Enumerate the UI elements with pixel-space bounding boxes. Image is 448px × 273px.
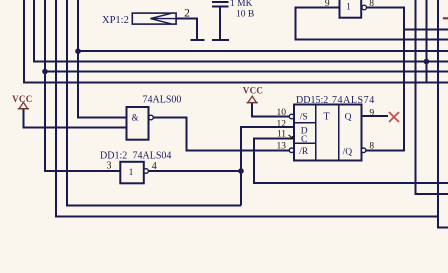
junction node A bbox=[75, 48, 81, 54]
svg-text:13: 13 bbox=[277, 141, 287, 151]
bubble top inverter output bbox=[362, 5, 367, 10]
no-connect X pin 9 bbox=[389, 112, 399, 122]
wire bus vertical V2 bbox=[34, 0, 448, 62]
flip-flop DD15:2 box bbox=[294, 104, 361, 160]
svg-text:VCC: VCC bbox=[12, 94, 32, 104]
svg-text:&: & bbox=[131, 113, 138, 123]
wire D pin 12 net bbox=[241, 127, 294, 206]
power VCC left bbox=[18, 102, 29, 108]
svg-text:2: 2 bbox=[184, 8, 190, 20]
svg-text:74ALS00: 74ALS00 bbox=[143, 95, 182, 106]
wire bus vertical V1 left bbox=[24, 0, 448, 83]
wire big loop V4 bottom bbox=[56, 0, 438, 217]
wire NAND output to /R pin 13 bbox=[153, 118, 289, 151]
bubble /Q pin 8 bbox=[361, 148, 366, 153]
wire branch y29 right bbox=[404, 28, 448, 30]
inverter DD1:2 box bbox=[120, 162, 144, 184]
wire bus vertical V3 to DD1:2 input bbox=[45, 0, 120, 171]
svg-text:/Q: /Q bbox=[343, 148, 353, 158]
wire V6 to NAND input A bbox=[78, 0, 127, 118]
ground capacitor bbox=[212, 39, 229, 41]
svg-text:8: 8 bbox=[369, 141, 374, 151]
wire VCC stem to /S pin 10 bbox=[252, 103, 289, 117]
wire C pin 11 feedback bbox=[254, 139, 448, 184]
junction node D bbox=[238, 168, 244, 174]
wire XP1:2 pin 2 to ground bbox=[176, 19, 197, 39]
wire V5 to bottom node bbox=[67, 0, 241, 206]
wire right vertical short bbox=[425, 0, 427, 83]
svg-text:1: 1 bbox=[346, 3, 351, 13]
junction node B bbox=[42, 69, 48, 75]
svg-text:T: T bbox=[324, 111, 330, 122]
svg-text:12: 12 bbox=[277, 120, 287, 130]
svg-text:DD1:2: DD1:2 bbox=[100, 151, 127, 162]
svg-text:Q: Q bbox=[345, 113, 352, 123]
bubble /R pin 13 bbox=[289, 148, 294, 153]
bubble DD1:2 output bbox=[144, 169, 149, 174]
svg-text:74ALS04: 74ALS04 bbox=[133, 151, 172, 162]
junction node C bbox=[424, 59, 430, 65]
svg-text:11: 11 bbox=[277, 130, 286, 140]
svg-text:4: 4 bbox=[152, 161, 157, 172]
wire top gate input 9 feedback bbox=[296, 8, 448, 40]
wire right vertical to edge bbox=[416, 0, 448, 194]
wire node branch y1 bbox=[78, 50, 448, 52]
connector XP1:2 bbox=[132, 13, 176, 24]
svg-text:9: 9 bbox=[369, 109, 374, 119]
gate top inverter U? bbox=[340, 0, 362, 18]
svg-text:10 B: 10 B bbox=[236, 10, 254, 20]
wire capacitor lead bbox=[219, 7, 221, 39]
svg-text:1 MK: 1 MK bbox=[230, 0, 253, 9]
wire right outer vertical to edge exit bbox=[438, 0, 448, 228]
svg-text:1: 1 bbox=[129, 168, 134, 178]
svg-text:10: 10 bbox=[277, 108, 287, 118]
ground XP bbox=[190, 39, 204, 41]
power VCC middle bbox=[247, 96, 258, 102]
wire DD1:2 output to node bbox=[148, 170, 241, 172]
wire node branch y3 bbox=[45, 71, 448, 73]
svg-text:/R: /R bbox=[299, 147, 309, 157]
svg-text:9: 9 bbox=[325, 0, 330, 9]
bubble /S pin 10 bbox=[289, 114, 294, 119]
svg-text:XP1:2: XP1:2 bbox=[102, 15, 129, 26]
svg-text:C: C bbox=[301, 135, 307, 145]
red dash right edge bbox=[443, 17, 448, 19]
capacitor C1 plates bbox=[212, 2, 228, 7]
svg-text:/S: /S bbox=[300, 113, 308, 123]
wire /Q pin 8 to top gate output bbox=[366, 8, 404, 151]
svg-text:3: 3 bbox=[107, 161, 112, 172]
dynamic input arrow C bbox=[289, 135, 293, 139]
svg-text:VCC: VCC bbox=[243, 85, 263, 95]
svg-text:8: 8 bbox=[369, 0, 374, 9]
bubble NAND output bbox=[149, 115, 154, 120]
wire VCC stem to NAND input B bbox=[23, 109, 126, 128]
NAND gate DD?:74ALS00 box bbox=[127, 107, 149, 140]
wire Q pin 9 bbox=[361, 115, 388, 117]
